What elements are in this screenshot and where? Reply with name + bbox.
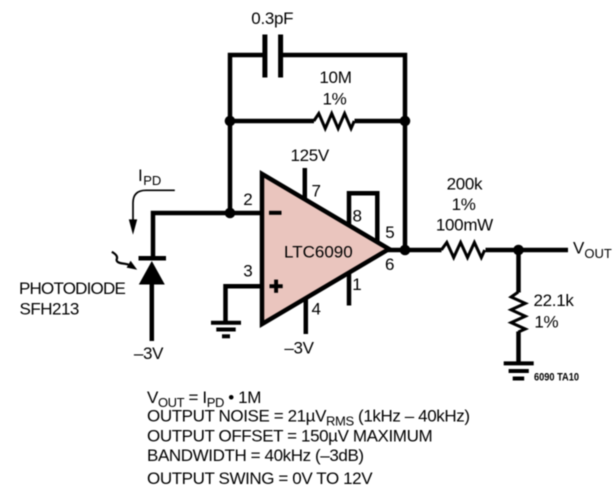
wire output to 200k — [388, 248, 442, 253]
svg-text:200k: 200k — [447, 175, 483, 194]
ground output — [504, 363, 534, 378]
wire pin7 — [303, 168, 308, 200]
wire pin4 — [304, 298, 309, 334]
node junction vout — [513, 245, 524, 256]
svg-text:OUTPUT OFFSET = 150µV MAXIMUM: OUTPUT OFFSET = 150µV MAXIMUM — [147, 426, 432, 445]
wire cap right lead and right feedback vertical — [283, 55, 405, 250]
node junction output — [400, 245, 411, 256]
svg-text:OUTPUT SWING = 0V TO 12V: OUTPUT SWING = 0V TO 12V — [147, 469, 373, 488]
svg-text:3: 3 — [243, 262, 252, 281]
wire pin3 to ground — [226, 286, 263, 321]
wire 22.1k to ground — [516, 332, 521, 364]
capacitor C1 0.3pF plates — [265, 35, 281, 78]
svg-text:OUTPUT NOISE = 21µVRMS (1kHz –: OUTPUT NOISE = 21µVRMS (1kHz – 40kHz) — [147, 407, 470, 429]
wire 200k to vout — [486, 248, 569, 253]
wire 10M left lead — [230, 119, 314, 124]
wire pin2 horizontal — [153, 213, 262, 256]
svg-text:2: 2 — [243, 190, 252, 209]
IPD current arrow — [129, 190, 175, 234]
svg-text:6: 6 — [385, 255, 394, 274]
svg-text:–3V: –3V — [284, 339, 314, 358]
photon squiggle arrow — [112, 252, 137, 270]
node junction left upper — [225, 116, 236, 127]
wire vout down to 22.1k — [516, 250, 521, 293]
svg-text:1: 1 — [352, 275, 361, 294]
wire cap left lead and left feedback vertical — [230, 55, 263, 213]
node junction inverting input — [225, 208, 236, 219]
photodiode D1 — [139, 258, 167, 341]
svg-text:100mW: 100mW — [436, 216, 493, 235]
svg-text:1%: 1% — [452, 195, 476, 214]
svg-text:5: 5 — [385, 223, 394, 242]
ground pin3 — [211, 323, 241, 337]
pin8 guard box — [349, 193, 377, 243]
resistor R1 10M zigzag — [314, 114, 354, 129]
svg-text:1%: 1% — [534, 313, 558, 332]
wire 10M right lead — [355, 119, 406, 124]
svg-text:4: 4 — [312, 300, 321, 319]
svg-text:0.3pF: 0.3pF — [251, 9, 293, 28]
svg-text:7: 7 — [312, 182, 321, 201]
svg-text:125V: 125V — [290, 146, 329, 165]
minus symbol — [269, 211, 282, 215]
svg-text:BANDWIDTH = 40kHz (–3dB): BANDWIDTH = 40kHz (–3dB) — [147, 446, 364, 465]
svg-text:1%: 1% — [323, 90, 347, 109]
resistor R2 200k zigzag — [441, 243, 484, 258]
svg-text:SFH213: SFH213 — [20, 300, 79, 319]
svg-text:LTC6090: LTC6090 — [284, 243, 353, 262]
resistor R3 22.1k zigzag — [511, 292, 525, 332]
svg-text:10M: 10M — [319, 68, 351, 87]
node junction right upper — [400, 116, 411, 127]
svg-text:PHOTODIODE: PHOTODIODE — [19, 279, 125, 298]
svg-text:8: 8 — [353, 207, 362, 226]
plus symbol — [270, 280, 283, 293]
wire pin1 — [347, 272, 352, 306]
svg-text:6090 TA10: 6090 TA10 — [534, 372, 579, 384]
svg-text:–3V: –3V — [134, 344, 164, 363]
op-amp U1 LTC6090 triangle — [262, 174, 389, 324]
svg-text:22.1k: 22.1k — [534, 291, 575, 310]
